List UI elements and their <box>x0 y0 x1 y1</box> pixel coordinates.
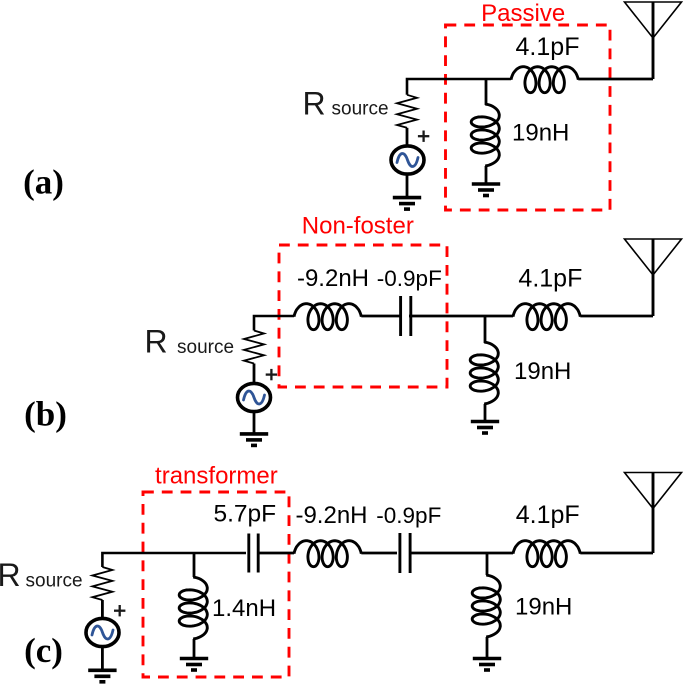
antenna (c) <box>625 473 682 554</box>
svg-text:R: R <box>0 557 21 593</box>
svg-text:5.7pF: 5.7pF <box>213 500 276 527</box>
wire source top corner (b) <box>254 316 294 331</box>
ground 19nH (a) <box>472 184 500 196</box>
value label -0.9pF (c) <box>376 503 441 528</box>
wire coil to cap (b) <box>361 315 400 318</box>
inductor 4.1pF (a) <box>511 67 578 93</box>
plus sign (b) <box>266 369 277 380</box>
ground 19nH (b) <box>471 422 499 434</box>
svg-text:19nH: 19nH <box>512 120 569 147</box>
wire coil to antenna (c) <box>580 552 653 555</box>
wire resistor to source (a) <box>406 128 409 147</box>
svg-text:transformer: transformer <box>155 463 278 490</box>
value label 1.4nH (c) <box>212 595 276 622</box>
wire source to ground (b) <box>253 411 256 434</box>
value label 19nH (c) <box>515 593 572 620</box>
inductor 19nH (a) <box>471 104 499 166</box>
plus sign (a) <box>418 131 429 142</box>
value label 4.1pF (b) <box>518 264 582 292</box>
label R source (a) <box>303 85 389 121</box>
value label 5.7pF (c) <box>213 500 276 527</box>
value label -9.2nH (b) <box>297 265 369 292</box>
plus sign (c) <box>114 605 125 616</box>
wire shunt coil to ground (b) <box>484 404 487 422</box>
ground source (c) <box>88 670 116 682</box>
svg-text:(c): (c) <box>24 631 63 670</box>
antenna (b) <box>625 239 682 316</box>
svg-text:source: source <box>332 99 389 120</box>
wire resistor to source (c) <box>101 600 104 620</box>
ground 1.4nH (c) <box>180 659 208 671</box>
wire source top corner (a) <box>407 79 511 95</box>
value label -9.2nH (c) <box>295 502 367 529</box>
wire shunt coil 19nH to ground (c) <box>486 637 489 659</box>
label R source (c) <box>0 557 83 593</box>
red dashed box transformer network <box>143 492 289 677</box>
red dashed box non-foster network <box>279 245 447 387</box>
svg-text:R: R <box>145 324 168 360</box>
wire node to shunt coil (b) <box>484 316 487 343</box>
wire cap to node to coil (b) <box>409 315 513 318</box>
svg-text:R: R <box>303 85 326 121</box>
inductor 4.1pF (c) <box>513 541 580 567</box>
svg-text:4.1pF: 4.1pF <box>518 264 582 292</box>
svg-text:19nH: 19nH <box>514 358 571 385</box>
capacitor -0.9pF (c) <box>400 533 410 573</box>
inductor -9.2nH (c) <box>294 541 361 567</box>
inductor -9.2nH (b) <box>294 304 361 330</box>
value label 19nH (a) <box>512 120 569 147</box>
svg-text:-9.2nH: -9.2nH <box>295 502 367 529</box>
label (b) <box>24 395 67 434</box>
value label 19nH (b) <box>514 358 571 385</box>
ground 19nH (c) <box>473 659 501 671</box>
resistor R source (c) <box>92 567 112 600</box>
red label Passive <box>481 0 565 27</box>
wire coil to cap2 (c) <box>361 552 397 555</box>
svg-text:4.1pF: 4.1pF <box>516 33 580 61</box>
wire source top corner (c) <box>102 553 246 567</box>
capacitor 5.7pF (c) <box>249 534 258 573</box>
inductor 1.4nH (c) <box>179 577 207 639</box>
inductor 19nH (b) <box>470 342 498 404</box>
svg-text:source: source <box>26 570 83 591</box>
wire cap2 to node2 to coil (c) <box>410 552 513 555</box>
wire shunt coil 1.4nH to ground (c) <box>193 639 196 659</box>
svg-text:(a): (a) <box>23 163 64 202</box>
red label Non-foster <box>302 213 414 240</box>
label R source (b) <box>145 324 235 360</box>
ground source (b) <box>240 434 268 446</box>
svg-text:-0.9pF: -0.9pF <box>377 266 442 291</box>
label (c) <box>24 631 63 670</box>
value label 4.1pF (c) <box>516 501 580 529</box>
red dashed box passive network <box>446 25 611 210</box>
wire node1 to shunt coil 1.4nH (c) <box>193 553 196 577</box>
red label transformer <box>155 463 278 490</box>
wire cap to coil (c) <box>258 552 294 555</box>
svg-text:19nH: 19nH <box>515 593 572 620</box>
wire shunt coil to ground (a) <box>485 166 488 184</box>
value label 4.1pF (a) <box>516 33 580 61</box>
ac source (c) <box>86 618 119 646</box>
ac source (b) <box>238 383 271 411</box>
svg-text:(b): (b) <box>24 395 67 434</box>
wire node2 to shunt coil 19nH (c) <box>486 553 489 575</box>
capacitor -0.9pF (b) <box>401 296 411 336</box>
svg-text:4.1pF: 4.1pF <box>516 501 580 529</box>
svg-text:-0.9pF: -0.9pF <box>376 503 441 528</box>
svg-text:source: source <box>177 337 234 358</box>
antenna (a) <box>625 2 682 79</box>
resistor R source (a) <box>397 95 417 128</box>
wire source to ground (a) <box>406 174 409 198</box>
inductor 19nH (c) <box>472 575 500 637</box>
wire coil to antenna (b) <box>580 315 653 318</box>
svg-text:Passive: Passive <box>481 0 565 27</box>
resistor R source (b) <box>244 331 264 364</box>
wire source to ground (c) <box>101 647 104 671</box>
svg-text:-9.2nH: -9.2nH <box>297 265 369 292</box>
value label -0.9pF (b) <box>377 266 442 291</box>
inductor 4.1pF (b) <box>513 304 580 330</box>
svg-text:1.4nH: 1.4nH <box>212 595 276 622</box>
label (a) <box>23 163 64 202</box>
svg-text:Non-foster: Non-foster <box>302 213 414 240</box>
ground source (a) <box>393 198 421 210</box>
wire node to shunt coil (a) <box>485 79 488 105</box>
ac source (a) <box>391 146 424 174</box>
wire coil to antenna (a) <box>578 78 653 81</box>
wire resistor to source (b) <box>253 364 256 385</box>
